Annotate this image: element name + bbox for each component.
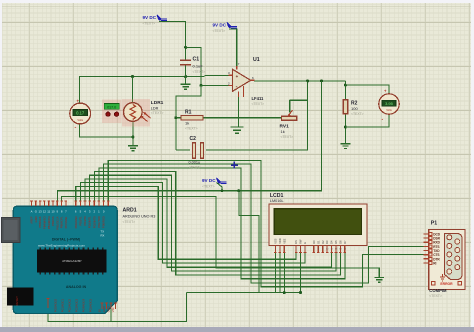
wire Arduino RX to P1 CTS bbox=[108, 160, 423, 286]
svg-text:VDD: VDD bbox=[278, 238, 282, 244]
P1 pin stubs and labels bbox=[424, 232, 441, 265]
Arduino ANALOG IN label bbox=[66, 285, 87, 289]
wire Arduino pin to LCD D6 bbox=[94, 172, 340, 275]
svg-text:PB3/MOSI: PB3/MOSI bbox=[47, 216, 51, 229]
wire R2 bottom to ground bbox=[344, 114, 346, 144]
ground under LDR1 bbox=[128, 146, 138, 151]
svg-text:DIGITAL (~PWM): DIGITAL (~PWM) bbox=[52, 237, 81, 241]
power flag 9V DC top-left bbox=[143, 15, 168, 26]
svg-text:G: G bbox=[35, 209, 37, 213]
wire R2 top lead bbox=[344, 85, 346, 100]
svg-text:10: 10 bbox=[51, 209, 55, 213]
svg-text:PD3/INT1: PD3/INT1 bbox=[88, 216, 92, 228]
ground under op-amp bbox=[231, 127, 244, 133]
svg-text:R1: R1 bbox=[185, 110, 192, 116]
svg-text:<TEXT>: <TEXT> bbox=[151, 111, 164, 115]
wire power flag tail bbox=[217, 183, 223, 191]
svg-text:E: E bbox=[303, 242, 307, 244]
meter M2 voltmeter bbox=[379, 89, 399, 123]
Arduino reference labels bbox=[123, 208, 156, 225]
node LDR top junction bbox=[131, 75, 134, 78]
origin marker bbox=[231, 162, 238, 169]
svg-text:D0: D0 bbox=[312, 240, 316, 244]
wire RV1 wiper vertical bbox=[289, 100, 291, 112]
Arduino bottom pin stubs bbox=[47, 298, 117, 309]
node output junction B bbox=[320, 79, 323, 82]
svg-text:<TEXT>: <TEXT> bbox=[213, 29, 226, 33]
svg-text:C2: C2 bbox=[190, 136, 197, 142]
P1 reference labels bbox=[429, 288, 447, 298]
svg-text:0.1uF: 0.1uF bbox=[193, 64, 204, 69]
svg-text:PC2/ADC2: PC2/ADC2 bbox=[68, 299, 72, 313]
wire opamp noninverting input bbox=[204, 74, 228, 76]
svg-text:LF411: LF411 bbox=[252, 96, 265, 101]
svg-text:ATMEGA328P: ATMEGA328P bbox=[62, 259, 81, 263]
wire to opamp inverting input pin 2 bbox=[201, 84, 229, 86]
svg-text:PD1/TXD: PD1/TXD bbox=[97, 216, 101, 227]
bottom border band bbox=[0, 327, 474, 332]
svg-text:GND: GND bbox=[102, 306, 106, 312]
resistor R2 bbox=[343, 100, 364, 116]
svg-text:9V DC: 9V DC bbox=[143, 15, 157, 20]
svg-text:www.TheEngineeringProjects.com: www.TheEngineeringProjects.com bbox=[38, 243, 86, 247]
svg-text:PD7/AIN1: PD7/AIN1 bbox=[64, 216, 68, 228]
LED indicator 2 bbox=[114, 112, 118, 116]
svg-text:D5: D5 bbox=[334, 240, 338, 244]
svg-text:9V DC: 9V DC bbox=[202, 178, 216, 183]
svg-text:GND: GND bbox=[34, 216, 38, 222]
wire horizontal supply rail y=76.6 bbox=[79, 76, 204, 78]
P1 name label bbox=[431, 221, 437, 227]
wire Arduino pin to LCD D7 bbox=[99, 168, 345, 279]
svg-text:0.17: 0.17 bbox=[76, 111, 85, 116]
light sensor LDR1 bbox=[122, 99, 164, 127]
svg-text:PB1/OC1A: PB1/OC1A bbox=[55, 216, 59, 229]
svg-text:12: 12 bbox=[43, 209, 47, 213]
Arduino ARD1 board bbox=[13, 206, 117, 313]
node at C1 ground stem crossing bbox=[184, 75, 187, 78]
svg-text:COMPIM: COMPIM bbox=[429, 288, 447, 293]
svg-text:PD2/INT0: PD2/INT0 bbox=[92, 216, 96, 228]
svg-text:PC3/ADC3: PC3/ADC3 bbox=[75, 299, 79, 313]
svg-text:100: 100 bbox=[351, 106, 358, 111]
svg-text:Volts: Volts bbox=[386, 108, 392, 112]
node LDR bottom junction bbox=[131, 136, 134, 139]
svg-text:3.95: 3.95 bbox=[385, 101, 394, 106]
instrument display panel bbox=[102, 100, 122, 124]
svg-text:<TEXT>: <TEXT> bbox=[429, 294, 442, 298]
svg-text:ARDUINO UNO R3: ARDUINO UNO R3 bbox=[123, 215, 156, 219]
svg-text:PC0/ADC0: PC0/ADC0 bbox=[54, 299, 58, 313]
svg-text:<TEXT>: <TEXT> bbox=[252, 102, 265, 106]
svg-text:D7: D7 bbox=[343, 240, 347, 244]
svg-text:PC4/ADC4: PC4/ADC4 bbox=[82, 299, 86, 313]
svg-text:VEE: VEE bbox=[282, 238, 286, 243]
svg-text:1k: 1k bbox=[185, 121, 189, 126]
node inverting input junction bbox=[200, 84, 203, 87]
wire 9V rail from flag to C1 top bbox=[159, 22, 186, 60]
svg-text:LDR1: LDR1 bbox=[151, 100, 164, 106]
svg-text:+: + bbox=[236, 74, 239, 79]
svg-text:5V: 5V bbox=[98, 309, 102, 312]
svg-text:<TEXT>: <TEXT> bbox=[202, 185, 215, 189]
wire Arduino TX to P1 RTS bbox=[104, 164, 424, 283]
wire C2 right to output column bbox=[206, 81, 308, 150]
wire staircase to LCD supply rail bbox=[239, 191, 259, 293]
svg-text:D3: D3 bbox=[325, 240, 329, 244]
LCD reference labels bbox=[270, 193, 284, 203]
wire Arduino pin to LCD E bbox=[80, 183, 305, 263]
op-amp U1 LF411 bbox=[228, 57, 264, 106]
connector P1 COMPIM bbox=[429, 229, 465, 289]
wire meter M1 minus lead bbox=[80, 124, 133, 137]
svg-text:P1: P1 bbox=[431, 221, 437, 227]
svg-text:11: 11 bbox=[47, 209, 50, 213]
svg-text:PD0/RXD: PD0/RXD bbox=[102, 216, 106, 228]
svg-text:017.0: 017.0 bbox=[107, 105, 116, 109]
Arduino analog pin labels bbox=[54, 299, 116, 313]
wire LDR1 top lead bbox=[132, 77, 134, 104]
svg-text:C1: C1 bbox=[193, 57, 200, 63]
wire meter M2 minus return bbox=[345, 114, 389, 127]
Arduino power pin wire bbox=[110, 309, 112, 322]
svg-text:PB0/ICP1: PB0/ICP1 bbox=[60, 216, 64, 228]
wire LCD VSS drop bbox=[274, 253, 276, 293]
wire LCD VEE drop bbox=[283, 253, 285, 293]
wire C1 bottom to ground bbox=[185, 65, 187, 84]
svg-text:<TEXT>: <TEXT> bbox=[351, 112, 364, 116]
wire branch to opamp input column bbox=[186, 47, 201, 85]
svg-text:-: - bbox=[236, 84, 238, 90]
svg-text:9V DC: 9V DC bbox=[213, 23, 227, 28]
wire C2 left lead bbox=[176, 149, 190, 151]
svg-text:<TEXT>: <TEXT> bbox=[185, 126, 198, 130]
node R1 left junction bbox=[174, 116, 177, 119]
svg-text:D6: D6 bbox=[339, 240, 343, 244]
svg-text:D2: D2 bbox=[321, 240, 325, 244]
svg-text:AREF: AREF bbox=[30, 216, 34, 224]
svg-text:PB4/MISO: PB4/MISO bbox=[43, 216, 47, 229]
svg-text:PD5/T1: PD5/T1 bbox=[79, 216, 83, 226]
svg-text:A: A bbox=[31, 209, 33, 213]
wire Arduino ground to P1 area ground bbox=[62, 196, 380, 277]
svg-text:PB5/SCK: PB5/SCK bbox=[38, 216, 42, 228]
svg-text:-: - bbox=[75, 125, 77, 131]
Arduino top pin header stubs bbox=[30, 201, 109, 206]
capacitor C2 bbox=[189, 136, 204, 170]
Arduino RESET label bbox=[15, 296, 19, 306]
wire bottom power pins run bbox=[111, 293, 187, 322]
Arduino microcontroller chip bbox=[37, 248, 107, 275]
svg-text:RS: RS bbox=[294, 240, 298, 244]
wire R1 right to RV1 left bbox=[203, 117, 282, 119]
Arduino DIGITAL PWM label bbox=[52, 237, 81, 241]
svg-text:<TEXT>: <TEXT> bbox=[193, 70, 206, 74]
Arduino top white pin numbers bbox=[31, 209, 105, 213]
svg-text:RI: RI bbox=[433, 261, 436, 265]
svg-text:PD6/AIN0: PD6/AIN0 bbox=[74, 216, 78, 228]
wire opamp V+ from power flag bbox=[229, 29, 237, 66]
Arduino digital pin labels bbox=[30, 216, 106, 230]
svg-text:<TEXT>: <TEXT> bbox=[123, 220, 136, 224]
LCD pin stubs bbox=[274, 246, 347, 254]
wire output corner to meter M2 rail bbox=[344, 81, 346, 85]
svg-text:1k: 1k bbox=[281, 129, 285, 134]
wire RV1 wiper spur bbox=[290, 99, 308, 101]
power flag 9V DC LCD supply bbox=[202, 178, 227, 189]
svg-text:<TEXT>: <TEXT> bbox=[143, 22, 156, 26]
svg-text:-: - bbox=[382, 117, 384, 123]
wire Arduino reset/bottom to ground rail bbox=[48, 308, 111, 322]
P1 shell ground mark bbox=[440, 274, 445, 281]
wire opamp output run bbox=[254, 80, 345, 82]
node ground rail junction 2 bbox=[299, 291, 302, 294]
capacitor C1 bbox=[180, 57, 205, 75]
svg-text:ERROR: ERROR bbox=[440, 282, 453, 286]
svg-text:0.001u: 0.001u bbox=[189, 161, 201, 165]
svg-text:LDR: LDR bbox=[151, 106, 159, 110]
wire R1 left lead bbox=[176, 117, 181, 119]
P1 DB9 pin circles bbox=[447, 235, 460, 274]
wire feedback down to R1/C2 node bbox=[176, 85, 201, 150]
Arduino power jack bbox=[7, 288, 34, 306]
svg-text:ANALOG IN: ANALOG IN bbox=[66, 285, 87, 289]
svg-text:GND: GND bbox=[107, 306, 111, 312]
ground under C1 bbox=[181, 84, 191, 89]
svg-text:ARD1: ARD1 bbox=[123, 208, 137, 214]
svg-text:VIN: VIN bbox=[111, 308, 115, 313]
P1 error indicator bbox=[432, 281, 462, 286]
potentiometer RV1 bbox=[280, 110, 297, 139]
svg-text:PC1/ADC1: PC1/ADC1 bbox=[61, 299, 65, 313]
svg-text:RESET: RESET bbox=[15, 296, 19, 306]
svg-text:D1: D1 bbox=[316, 240, 320, 244]
svg-text:RX: RX bbox=[101, 234, 105, 238]
wire opamp V- to ground bbox=[238, 97, 240, 128]
svg-text:13: 13 bbox=[39, 209, 43, 213]
svg-text:U1: U1 bbox=[253, 57, 260, 63]
wire Arduino pin to LCD D4 bbox=[85, 179, 332, 267]
node staircase junction bbox=[237, 189, 240, 192]
power flag 9V DC opamp supply bbox=[213, 23, 238, 34]
svg-text:PC5/ADC5: PC5/ADC5 bbox=[89, 299, 93, 313]
svg-text:+: + bbox=[77, 98, 80, 103]
node R2 bottom junction bbox=[344, 126, 347, 129]
wire analog A0 sense from opamp output bbox=[57, 81, 321, 201]
svg-text:Volts: Volts bbox=[77, 118, 83, 122]
svg-text:PD4/T0: PD4/T0 bbox=[83, 216, 87, 226]
LCD display LCD1 LM016L bbox=[269, 204, 367, 246]
svg-text:VSS: VSS bbox=[274, 238, 278, 243]
wire Arduino pin to LCD D5 bbox=[90, 175, 336, 271]
wire LCD VDD drop bbox=[279, 253, 281, 293]
LCD pin labels bbox=[274, 238, 347, 244]
svg-text:LM016L: LM016L bbox=[270, 199, 284, 203]
svg-text:LCD1: LCD1 bbox=[270, 193, 284, 199]
Arduino TX RX labels bbox=[101, 230, 105, 238]
wire ground rail under LCD bbox=[187, 292, 301, 294]
wire Arduino pin to LCD RS bbox=[76, 186, 296, 259]
Arduino USB connector bbox=[2, 218, 21, 243]
svg-text:<TEXT>: <TEXT> bbox=[189, 166, 202, 170]
svg-text:PB2/SS: PB2/SS bbox=[51, 216, 55, 226]
wire to meter M2 plus bbox=[345, 85, 389, 94]
ground under R2 bbox=[340, 144, 350, 149]
node ground rail junction 1 bbox=[283, 291, 286, 294]
LED indicator 1 bbox=[106, 112, 110, 116]
svg-text:D4: D4 bbox=[330, 240, 334, 244]
node output junction A bbox=[306, 79, 309, 82]
node junction at C1 top branch bbox=[184, 46, 187, 49]
node R2 top junction bbox=[344, 84, 347, 87]
ground near P1 bbox=[374, 277, 384, 282]
node power flag tail junction bbox=[221, 189, 224, 192]
wire LDR1 bottom to ground bbox=[132, 121, 134, 146]
Arduino branding text bbox=[38, 243, 86, 247]
svg-text:RW: RW bbox=[299, 239, 303, 244]
svg-text:<TEXT>: <TEXT> bbox=[281, 135, 294, 139]
meter M1 voltmeter bbox=[70, 98, 91, 130]
wire meter M1 top lead bbox=[79, 77, 81, 104]
resistor R1 bbox=[181, 110, 203, 131]
wire LCD RW drop bbox=[300, 253, 302, 293]
